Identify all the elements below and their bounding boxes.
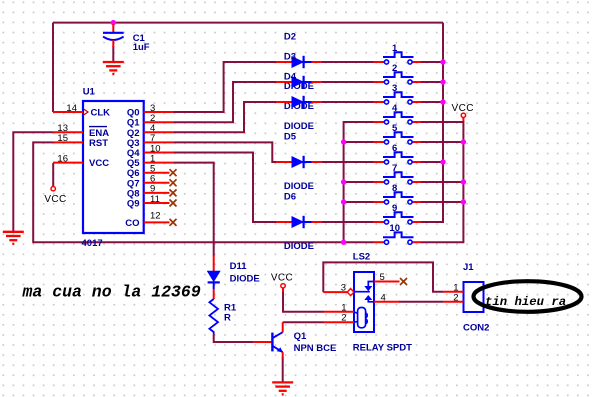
diode D6 — [276, 192, 322, 253]
wire R1 bottom to Q1 base — [214, 334, 254, 342]
wire Q0 to diode D2 — [174, 62, 276, 112]
svg-text:DIODE: DIODE — [284, 121, 314, 132]
diode D4 — [276, 72, 322, 133]
svg-text:D6: D6 — [284, 192, 296, 203]
svg-text:D11: D11 — [230, 261, 248, 272]
diode D3 — [276, 52, 322, 113]
svg-text:3: 3 — [341, 283, 346, 294]
wire ENA to ground — [13, 132, 53, 231]
junction sw5/reset riser — [341, 139, 346, 144]
wire diode D3 out to switch2 — [322, 81, 374, 83]
transistor Q1 NPN — [254, 322, 337, 358]
svg-text:U1: U1 — [83, 87, 96, 98]
junction sw7/VCC bus — [461, 179, 466, 184]
pin 9 Q8 stub (NC) — [144, 192, 170, 194]
wire diode D5 out to switch6 — [322, 161, 374, 163]
svg-text:15: 15 — [57, 133, 68, 144]
svg-text:2: 2 — [392, 63, 397, 74]
no-connect X CO — [170, 219, 177, 226]
wire right bus vertical (CLK net to switches 1,2,3,6,9) — [421, 23, 443, 222]
pin 7 Q3 stub — [144, 141, 174, 143]
svg-text:4017: 4017 — [82, 238, 103, 249]
svg-text:Q1: Q1 — [294, 331, 307, 342]
junction sw1/CLK bus — [440, 59, 445, 64]
pin 6 Q7 stub (NC) — [144, 182, 170, 184]
no-connect X Q7 — [170, 179, 177, 186]
svg-text:7: 7 — [392, 163, 397, 174]
pin 16 VCC stub — [53, 162, 83, 164]
svg-text:14: 14 — [66, 103, 77, 114]
switch SW3 — [374, 83, 422, 104]
svg-text:11: 11 — [150, 194, 160, 205]
no-connect X Q8 — [170, 189, 177, 196]
VCC symbol (middle, relay coil) — [271, 273, 293, 293]
wire VCC to relay pin1 — [283, 291, 324, 312]
wire CLK left vertical down to U1 pin 14 — [52, 23, 54, 112]
capacitor C1 — [103, 24, 150, 53]
relay pin 5 stub (NC) — [374, 281, 400, 283]
svg-text:DIODE: DIODE — [284, 181, 314, 192]
svg-text:ma cua no la 12369: ma cua no la 12369 — [22, 283, 201, 302]
wire Q3 to diode D5 — [174, 142, 276, 162]
svg-text:10: 10 — [389, 223, 400, 234]
switch SW10 — [374, 223, 422, 244]
pin 14 CLK stub — [53, 111, 83, 113]
svg-text:R: R — [224, 313, 231, 324]
svg-text:CON2: CON2 — [463, 323, 489, 334]
svg-text:D2: D2 — [284, 32, 296, 43]
diode D5 — [276, 132, 322, 193]
junction sw8/reset riser — [341, 199, 346, 204]
wire U1 VCC pin to VCC symbol — [52, 163, 54, 186]
no-connect X Q6 — [170, 169, 177, 176]
diode D2 — [276, 32, 322, 93]
svg-text:VCC: VCC — [452, 103, 474, 114]
junction sw3/CLK bus — [440, 99, 445, 104]
wire switch1 right to bus — [421, 61, 443, 63]
svg-text:5: 5 — [392, 123, 398, 134]
wire switch7 right to VCC bus — [421, 181, 463, 183]
svg-text:5: 5 — [380, 272, 385, 283]
wire diode D2 out to switch1 — [322, 61, 374, 63]
wire switch2 right to bus — [421, 81, 443, 83]
wire switch5 right to VCC bus — [421, 141, 463, 143]
switch SW6 — [374, 143, 422, 164]
relay LS2 — [323, 252, 412, 354]
pin 1 Q5 stub — [144, 162, 174, 164]
pin 13 ENA stub — [53, 131, 83, 133]
wire Q1 emitter to ground — [282, 357, 284, 382]
svg-text:8: 8 — [392, 183, 397, 194]
VCC symbol (right, switch bus) — [452, 103, 474, 118]
wire Q5 down to D11 — [174, 163, 214, 256]
wire reset riser to switch8 — [344, 201, 374, 203]
switch SW4 — [374, 103, 422, 124]
svg-text:2: 2 — [341, 313, 346, 324]
svg-text:1: 1 — [392, 43, 398, 54]
svg-text:D3: D3 — [284, 52, 296, 63]
svg-text:12: 12 — [150, 211, 161, 222]
junction sw8/VCC bus — [461, 199, 466, 204]
relay coil — [358, 308, 366, 328]
pin 12 CO stub (NC) — [144, 221, 170, 223]
svg-text:CLK: CLK — [91, 108, 111, 119]
svg-text:LS2: LS2 — [353, 252, 370, 263]
svg-text:J1: J1 — [463, 262, 474, 273]
wire Q4 to diode D6 — [174, 153, 276, 223]
junction sw5/VCC bus — [461, 139, 466, 144]
junction sw2/CLK bus — [440, 79, 445, 84]
svg-text:1: 1 — [341, 302, 346, 313]
wire diode D4 out to switch3 — [322, 101, 374, 103]
pin 10 Q4 stub — [144, 152, 174, 154]
wire Q2 to diode D4 — [174, 102, 276, 132]
relay pin 4 stub — [374, 301, 400, 303]
junction reset riser base — [341, 240, 346, 245]
wire switch4 right to VCC bus — [421, 121, 463, 123]
pin 3 Q0 stub — [144, 111, 174, 113]
wire reset-net riser to switches 4,5,7,8 — [344, 122, 374, 242]
svg-text:6: 6 — [392, 143, 397, 154]
svg-text:9: 9 — [392, 203, 397, 214]
switch SW8 — [374, 183, 422, 204]
J1 pin 2 stub — [444, 301, 464, 303]
ground (ENA) — [3, 232, 24, 244]
relay pin 1 stub — [324, 311, 355, 313]
svg-text:D5: D5 — [284, 132, 297, 143]
relay pin 2 stub — [324, 321, 355, 323]
wire RST down and across (reset net) — [33, 142, 373, 242]
svg-text:DIODE: DIODE — [284, 241, 314, 252]
svg-text:DIODE: DIODE — [230, 274, 260, 285]
annotation ellipse (hand drawn) — [474, 281, 582, 312]
wire relay pin3 to J1 pin1 — [323, 262, 443, 292]
svg-text:NPN BCE: NPN BCE — [294, 343, 337, 354]
resistor R1 — [209, 299, 236, 334]
pin 4 Q2 stub — [144, 131, 174, 133]
svg-text:D4: D4 — [284, 72, 297, 83]
junction sw7/reset riser — [341, 179, 346, 184]
svg-text:3: 3 — [392, 83, 397, 94]
wire switch3 right to bus — [421, 101, 443, 103]
svg-text:4: 4 — [392, 103, 398, 114]
diode D11 (vertical) — [208, 256, 260, 299]
svg-text:RST: RST — [89, 138, 108, 149]
no-connect X Q9 — [170, 200, 177, 207]
wire switch6 right to bus — [421, 161, 443, 163]
relay contacts — [368, 282, 374, 287]
pin 2 Q1 stub — [144, 121, 174, 123]
op-amp? no: IC U1 4017 counter — [53, 87, 174, 250]
wire Q1 to diode D3 — [174, 82, 276, 122]
ground (Q1 emitter) — [272, 382, 293, 394]
switch SW2 — [374, 63, 422, 84]
svg-text:Q9: Q9 — [127, 199, 140, 210]
ground (C1) — [103, 62, 124, 74]
no-connect X relay pin5 — [400, 278, 407, 285]
pin 15 RST stub — [53, 141, 83, 143]
switch SW7 — [374, 163, 422, 184]
pin 5 Q6 stub (NC) — [144, 172, 170, 174]
svg-text:CO: CO — [125, 218, 139, 229]
wire diode D6 out to switch9 — [322, 221, 374, 223]
wire VCC bus vertical (switches 4,5,7,8,10) — [421, 121, 463, 242]
wire Q1 collector to relay pin2 — [283, 321, 324, 323]
svg-text:VCC: VCC — [89, 158, 109, 169]
svg-text:tin hieu ra: tin hieu ra — [485, 295, 566, 309]
switch SW1 — [374, 43, 422, 64]
switch SW5 — [374, 123, 422, 144]
wire reset riser to switch5 — [344, 141, 374, 143]
svg-text:2: 2 — [453, 292, 458, 303]
pin 11 Q9 stub (NC) — [144, 202, 170, 204]
junction C1 top — [111, 20, 116, 25]
wire relay pin4 to J1 pin2 — [399, 301, 444, 303]
svg-text:4: 4 — [381, 292, 386, 303]
relay pin 3 stub — [323, 291, 347, 293]
wire reset riser to switch7 — [344, 181, 374, 183]
J1 pin 1 stub — [444, 291, 464, 293]
wire CLK top horizontal — [53, 22, 443, 24]
VCC symbol (left, at U1 pin16) — [44, 187, 66, 206]
svg-text:VCC: VCC — [44, 194, 66, 205]
svg-text:VCC: VCC — [271, 273, 293, 284]
connector J1 CON2 — [444, 262, 490, 334]
junction sw6/CLK bus — [440, 159, 445, 164]
svg-text:RELAY SPDT: RELAY SPDT — [353, 343, 412, 354]
svg-text:16: 16 — [57, 153, 68, 164]
wire switch8 right to VCC bus — [421, 201, 463, 203]
switch SW9 — [374, 203, 422, 224]
wire C1 lower lead to ground — [112, 46, 114, 61]
svg-text:1uF: 1uF — [133, 42, 150, 53]
